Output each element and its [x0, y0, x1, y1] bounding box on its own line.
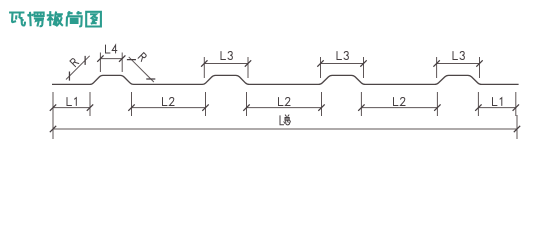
profile polyline (corrugated sheet cross-section) [52, 75, 519, 84]
title 瓦愣板简图 (drawn glyphs) [9, 11, 101, 26]
label L3 #3 [453, 52, 464, 60]
char 瓦 [9, 13, 25, 26]
dimension L2 #2 [243, 92, 324, 116]
dimension L3 #2 (over rib 3) [317, 57, 366, 78]
dimension L3 #3 (over rib 4) [433, 57, 482, 78]
dimension L1 right [475, 92, 519, 116]
label L2 #3 [394, 98, 406, 106]
char 简 [67, 11, 82, 26]
char 板 [47, 11, 63, 26]
label L1 right [493, 98, 502, 106]
label L3 #2 [337, 52, 348, 60]
label L2 #2 [279, 98, 291, 106]
dimension L2 #1 [128, 92, 208, 116]
char 总 (small) [284, 115, 291, 125]
label R left (rotated) [70, 58, 79, 67]
label L2 #1 [163, 98, 175, 106]
dimension L1 left [50, 92, 93, 116]
dimension L3 #1 (over rib 2) [201, 57, 251, 78]
label L3 #1 [221, 52, 232, 60]
dimension R right (slope radius callout, rotated +45°) [126, 55, 156, 85]
char 愣 [28, 12, 44, 27]
dimension L4 (top flat of rib 1) [97, 53, 125, 73]
dimension R left (slope radius callout, rotated -45°) [64, 54, 92, 82]
dimension L-total (overall width) [50, 115, 520, 139]
label L1 left [67, 98, 76, 106]
label R right (rotated) [138, 53, 147, 62]
label L总 [280, 116, 284, 125]
dimension L2 #3 [358, 92, 440, 116]
char 图 [86, 12, 101, 27]
label L4 [106, 45, 117, 53]
